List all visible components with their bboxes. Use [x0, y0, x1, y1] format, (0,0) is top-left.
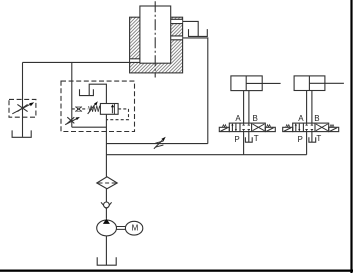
- wire relief valve drain loop: [89, 84, 106, 103]
- inline throttle bars: [155, 141, 163, 147]
- wire A line valve2: [306, 91, 308, 124]
- cylinder 2 (left clamp): [231, 76, 262, 91]
- V1 right cell cross: [253, 124, 265, 131]
- svg-text:A: A: [298, 114, 304, 123]
- page border right: [350, 0, 352, 273]
- wire relief block bottom: [72, 126, 107, 128]
- wire A line valve1: [243, 91, 245, 124]
- wire left branch vertical: [22, 62, 24, 136]
- motor M1: [125, 221, 142, 235]
- centerline: [154, 1, 156, 77]
- pilot orifice X: [75, 107, 81, 111]
- valve V1 body: [229, 123, 265, 132]
- spring adjust arrow: [88, 104, 95, 114]
- tank V1 T: [245, 137, 252, 142]
- wire cylinder top port to tank: [183, 21, 199, 36]
- svg-text:M: M: [132, 224, 139, 233]
- wire pump suction: [105, 236, 107, 265]
- inline throttle arrow: [154, 140, 162, 149]
- check valve: [101, 202, 112, 208]
- wire relief block left vertical: [71, 62, 73, 127]
- throttle valve adjust arrow: [12, 104, 30, 114]
- page border bottom: [0, 270, 353, 272]
- wire V2 P to bus: [306, 132, 308, 155]
- wire main pressure vertical: [105, 114, 107, 177]
- port notch right lower: [171, 36, 182, 40]
- tank V2 T: [309, 137, 316, 142]
- relief block dashed enclosure: [61, 81, 135, 131]
- relief valve arrow: [111, 106, 113, 113]
- tank at cylinder top: [189, 29, 208, 36]
- V1 center cell blocked ports: [242, 123, 250, 132]
- cylinder 3 (right clamp): [294, 76, 325, 91]
- port notch right upper: [171, 19, 182, 23]
- wire B line valve1: [248, 91, 250, 124]
- V1 solenoid left: [219, 127, 229, 131]
- svg-text:T: T: [316, 134, 321, 143]
- wire check valve to pump: [105, 209, 107, 219]
- wire cylinder side port down right side: [183, 38, 208, 144]
- throttle valve X: [17, 104, 27, 111]
- wire B line valve2: [311, 91, 313, 124]
- svg-text:B: B: [314, 114, 319, 123]
- V2 solenoid right: [329, 127, 339, 131]
- pilot line left dashed: [72, 108, 88, 110]
- V2 solenoid left: [283, 127, 293, 131]
- relief valve body: [100, 104, 118, 115]
- tank inside relief block: [80, 89, 94, 95]
- svg-text:P: P: [298, 135, 303, 144]
- svg-text:B: B: [253, 114, 258, 123]
- plunger: [140, 6, 171, 63]
- tank main: [97, 257, 116, 265]
- V2 right cell cross: [316, 124, 328, 131]
- svg-text:A: A: [235, 114, 241, 123]
- wire V1 P to bus: [243, 132, 245, 155]
- tank left: [12, 130, 31, 137]
- V1 left cell arrows: [231, 125, 233, 132]
- V1 solenoid right: [265, 127, 275, 131]
- wire V2 T to tank: [311, 132, 313, 143]
- coupling: [116, 227, 125, 230]
- throttle valve dashed enclosure: [9, 99, 36, 117]
- pump: [97, 220, 117, 236]
- svg-text:P: P: [234, 135, 239, 144]
- wire filter to check valve: [105, 189, 107, 203]
- svg-text:T: T: [254, 134, 259, 143]
- relief block throttle arrow: [65, 119, 76, 125]
- wire P supply bus: [106, 154, 306, 156]
- V2 left cell arrows: [295, 125, 297, 132]
- port notch left: [130, 59, 139, 63]
- relief block throttle X: [67, 117, 74, 123]
- V2 center cell blocked ports: [305, 123, 313, 132]
- relief valve spring: [89, 106, 101, 112]
- pilot line right dashed: [106, 109, 128, 120]
- wire throttle branch: [106, 143, 207, 145]
- valve V2 body: [293, 123, 329, 132]
- filter: [97, 177, 117, 189]
- supply line to cylinder: [23, 61, 140, 63]
- cylinder ram body: [130, 17, 183, 73]
- wire V1 T to tank: [248, 132, 250, 143]
- relief valve seat line: [113, 104, 115, 115]
